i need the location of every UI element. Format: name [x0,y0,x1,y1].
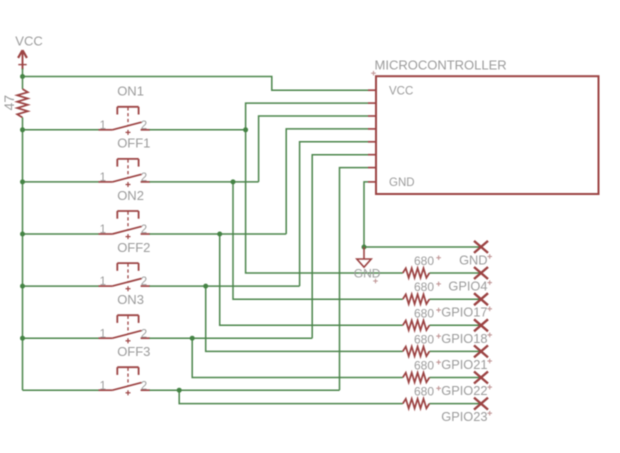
pin stub 2 (MCU) [368,115,376,117]
text origin cross (680 GPIO22) [436,360,441,365]
text origin cross (GPIO21 label) [487,359,492,364]
junction OFF3 row / down-leg [177,388,182,393]
wire rail to switch ON2 pin 1 [23,233,99,235]
svg-text:680: 680 [414,306,434,320]
wire OFF2 down-leg to resistor row GPIO21 [206,286,403,351]
switch ON1 [99,107,151,135]
svg-text:GPIO21: GPIO21 [441,357,487,372]
resistor 680 (GPIO21) [403,347,430,357]
wire VCC junction down to resistor [22,77,24,90]
junction OFF2 row / down-leg [203,284,208,289]
unconnected-end X mark (GPIO18) [474,319,488,331]
svg-text:OFF2: OFF2 [117,240,150,255]
junction ON2 row / down-leg [217,232,222,237]
wire OFF3 down-leg to resistor row GPIO23 [179,390,403,403]
svg-text:680: 680 [414,280,434,294]
wire ON3 up-leg to MCU pin [312,155,368,339]
svg-text:GND: GND [354,266,381,280]
wire MCU GND pin down to GND junction and row [364,182,481,247]
unconnected-end X mark (GPIO17) [474,293,488,305]
pin stub 1 (MCU) [368,102,376,104]
text origin cross (680 GPIO4) [436,255,441,260]
svg-text:2: 2 [141,120,147,132]
wire resistor to X (GPIO21) [429,350,481,352]
wire ON1 pin 2 to up-leg corner [150,129,246,131]
resistor 680 (GPIO17) [403,294,430,304]
svg-text:2: 2 [141,172,147,184]
switch ON2 [99,211,151,239]
power symbol VCC [18,50,27,77]
wire OFF3 pin 2 to up-leg corner [150,389,340,391]
svg-text:680: 680 [414,254,434,268]
svg-text:ON1: ON1 [117,84,144,99]
svg-text:GPIO22: GPIO22 [441,383,487,398]
svg-text:2: 2 [141,380,147,392]
junction rail at OFF1 row [20,179,25,184]
wire OFF1 down-leg to resistor row GPIO17 [233,182,403,299]
svg-text:ON2: ON2 [117,188,144,203]
wire rail to switch OFF1 pin 1 [23,181,99,183]
switch OFF1 [99,159,151,187]
junction at VCC rail top [20,74,25,79]
junction rail at OFF2 row [20,284,25,289]
svg-text:GPIO18: GPIO18 [441,331,487,346]
svg-text:GND: GND [389,177,415,189]
switch OFF3 [99,367,151,395]
wire VCC rail to microcontroller VCC pin [23,77,369,91]
text origin cross (GND label) [487,254,492,259]
wire rail to switch ON1 pin 1 [23,129,99,131]
text origin cross (680 GPIO23) [436,386,441,391]
wire ON2 pin 2 to up-leg corner [150,233,287,235]
unconnected-end X mark (GPIO22) [474,372,488,384]
wire rail to switch ON3 pin 1 [23,337,99,339]
text origin cross (680 GPIO21) [436,334,441,339]
unconnected-end X mark (GND) [474,241,488,253]
wire ON2 down-leg to resistor row GPIO18 [220,234,403,325]
svg-text:OFF3: OFF3 [117,344,150,359]
pin stub 3 (MCU) [368,128,376,130]
svg-text:680: 680 [414,332,434,346]
wire rail to switch OFF2 pin 1 [23,285,99,287]
wire ON3 pin 2 to up-leg corner [150,337,313,339]
svg-text:GPIO23: GPIO23 [441,409,487,424]
svg-text:MICROCONTROLLER: MICROCONTROLLER [375,57,507,72]
svg-text:1: 1 [100,172,106,184]
ground symbol GND [357,247,371,267]
text origin cross (GPIO17 label) [487,307,492,312]
wire OFF3 up-leg to MCU pin [340,168,369,391]
wire rail: resistor to OFF3 row [22,118,24,391]
resistor 680 (GPIO22) [403,373,430,383]
svg-text:680: 680 [414,359,434,373]
wire OFF1 pin 2 to up-leg corner [150,181,259,183]
text origin cross (680 GPIO17) [436,282,441,287]
text origin cross (GPIO22 label) [487,385,492,390]
resistor 680 (GPIO4) [403,268,430,278]
wire OFF1 up-leg to MCU pin [259,116,368,182]
text origin cross (GND label) [373,279,378,284]
part origin cross (MICROCONTROLLER) [371,71,376,76]
resistor 680 (GPIO18) [403,321,430,331]
text origin cross (GPIO18 label) [487,333,492,338]
wire ON3 down-leg to resistor row GPIO22 [192,338,403,377]
text origin cross (680 GPIO18) [436,308,441,313]
wire resistor to X (GPIO22) [429,377,481,379]
resistor 47 [17,89,28,118]
svg-text:1: 1 [100,276,106,288]
svg-text:1: 1 [100,380,106,392]
wire resistor to X (GPIO18) [429,324,481,326]
pin stub 4 (MCU) [368,141,376,143]
svg-text:ON3: ON3 [117,292,144,307]
junction OFF1 row / down-leg [231,179,236,184]
wire resistor to X (GPIO4) [429,272,481,274]
pin VCC stub (MCU) [368,89,376,91]
pin stub 5 (MCU) [368,154,376,156]
text origin cross (GPIO4 label) [487,280,492,285]
wire resistor to X (GPIO23) [429,403,481,405]
svg-text:680: 680 [414,385,434,399]
junction ON1 row / vertical [243,127,248,132]
wire resistor to X (GPIO17) [429,298,481,300]
wire ON1 down-leg to resistor row GPIO4 [246,130,403,273]
svg-text:47: 47 [1,95,17,111]
switch OFF2 [99,263,151,291]
junction rail at ON3 row [20,336,25,341]
unconnected-end X mark (GPIO23) [474,398,488,410]
unconnected-end X mark (GPIO4) [474,267,488,279]
wire OFF2 up-leg to MCU pin [300,142,368,286]
unconnected-end X mark (GPIO21) [474,345,488,357]
svg-text:2: 2 [141,276,147,288]
svg-text:1: 1 [100,328,106,340]
wire ON1 up-leg to MCU pin [246,103,368,130]
svg-text:GPIO17: GPIO17 [441,305,487,320]
op-amp/IC box: MICROCONTROLLER U1 [376,76,599,194]
resistor 680 (GPIO23) [403,399,430,409]
pin stub 6 (MCU) [368,167,376,169]
svg-text:GPIO4: GPIO4 [448,279,487,294]
svg-text:OFF1: OFF1 [117,136,150,151]
svg-text:GND: GND [459,252,487,267]
wire rail to switch OFF3 pin 1 [23,389,99,391]
svg-text:VCC: VCC [15,33,42,48]
pin GND stub (MCU) [368,181,376,183]
wire OFF2 pin 2 to up-leg corner [150,285,300,287]
switch ON3 [99,315,151,343]
wire ON2 up-leg to MCU pin [286,129,368,234]
junction ON3 row / down-leg [190,336,195,341]
junction rail at ON1 row [20,127,25,132]
svg-text:2: 2 [141,328,147,340]
svg-text:1: 1 [100,120,106,132]
junction rail at ON2 row [20,232,25,237]
svg-text:1: 1 [100,224,106,236]
svg-text:2: 2 [141,224,147,236]
svg-text:VCC: VCC [389,85,413,97]
text origin cross (GPIO23 label) [487,411,492,416]
junction GND [362,245,367,250]
